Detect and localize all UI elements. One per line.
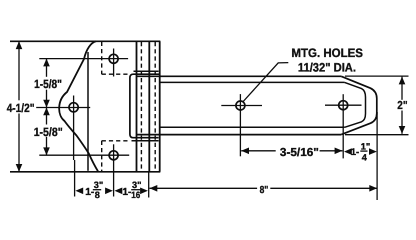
dimension 2 extension top <box>345 75 409 77</box>
svg-text:1-5/8": 1-5/8" <box>34 125 63 139</box>
dimension 1-5/8 middle arrow up <box>43 108 50 116</box>
extension line below strap tip <box>376 112 378 200</box>
svg-text:3": 3" <box>94 180 103 190</box>
strap pointed tip inner <box>345 82 366 127</box>
hinge pin hidden line right <box>154 42 156 171</box>
hole H2 middle of plate <box>69 103 78 112</box>
svg-text:4: 4 <box>362 152 368 162</box>
svg-text:1": 1" <box>361 141 370 151</box>
knuckle end line bottom <box>132 140 159 142</box>
hole H5 horizontal centerline <box>325 104 362 106</box>
barrel right edge <box>159 41 161 172</box>
dimension 1-3/8 arrows <box>75 188 83 195</box>
dimension 1-1/4 arrows <box>344 148 352 155</box>
dimension 2 extension bottom <box>345 134 409 136</box>
hole H2 horizontal centerline <box>36 107 90 109</box>
label 1-3/16 : fraction bar <box>131 189 140 191</box>
dimension 1-3/16 arrows <box>115 188 123 195</box>
dimension 1-5/8 top arrow <box>43 59 50 67</box>
dimension 3-5/16 line with gap for label <box>241 150 276 152</box>
dimension 1-5/8 bottom arrow <box>43 147 50 155</box>
svg-text:16: 16 <box>131 190 140 200</box>
strap top edge <box>137 75 341 77</box>
svg-text:3": 3" <box>132 180 141 190</box>
dimension 3-5/16 arrows <box>241 148 249 155</box>
strap wrap outline around barrel <box>130 74 160 138</box>
top extension line for 4-1/2 dim merged with plate top edge <box>10 40 160 42</box>
hole H4 vertical centerline extended to 3-5/16 dim <box>239 94 241 156</box>
svg-text:8": 8" <box>260 185 269 196</box>
hole H3 horizontal centerline merged with 1-5/8 extension <box>39 154 129 156</box>
hole H2 vertical centerline extended as extension for 1-3/8 <box>73 96 75 161</box>
svg-text:8: 8 <box>95 190 100 200</box>
strap bottom edge <box>137 134 341 136</box>
extension line under barrel for 8 and 1-3/16 dims <box>148 172 150 198</box>
barrel left edge <box>136 41 138 172</box>
hole H1 top of plate <box>109 54 118 63</box>
strap inner bottom line <box>160 126 345 128</box>
dimension 2 bottom arrow <box>399 126 406 134</box>
hidden tab bottom: left edge <box>101 141 103 172</box>
barrel middle edge <box>148 41 150 172</box>
hole H5 vertical centerline extended to dims <box>342 94 344 158</box>
hole H5 strap right <box>339 101 348 110</box>
hole H4 strap left <box>236 101 245 110</box>
hole H3 bottom of plate <box>109 151 118 160</box>
dimension 1-5/8 line with gaps for labels <box>46 59 48 77</box>
dimension 8 left arrow <box>150 185 158 192</box>
hidden tab bottom: top edge <box>102 140 130 142</box>
strap inner top line <box>160 81 345 83</box>
dimension 4-1/2 bottom arrow <box>16 164 23 172</box>
dimension 8 right arrow <box>369 185 377 192</box>
butt plate outline <box>59 41 98 171</box>
hidden tab top: left edge <box>101 42 103 74</box>
bottom extension line merged with plate and barrel bottom edge <box>10 171 160 173</box>
svg-text:MTG. HOLES: MTG. HOLES <box>291 46 363 60</box>
hole H1 horizontal centerline merged with 1-5/8 extension <box>39 58 128 60</box>
svg-text:1-: 1- <box>122 187 131 198</box>
hole H3 vertical centerline extended as extension for 1-3/8 and 1-3/16 <box>113 144 115 196</box>
hole H4 horizontal centerline <box>221 105 262 107</box>
knuckle end line top <box>134 70 159 72</box>
label 1-1/4 : fraction bar <box>360 150 367 152</box>
plate fold line <box>87 52 89 171</box>
hole H1 vertical centerline <box>113 49 115 77</box>
strap pointed tip outer <box>341 76 377 134</box>
svg-text:11/32" DIA.: 11/32" DIA. <box>298 61 356 75</box>
dimension 2 line with gap for label <box>401 77 403 100</box>
dimension 4-1/2 line with gap for label <box>18 41 20 100</box>
svg-text:2": 2" <box>397 99 407 112</box>
dimension 2 top arrow <box>399 77 406 85</box>
leader line from MTG HOLES note to hole H4 <box>243 63 288 102</box>
hinge pin hidden line left <box>140 42 142 171</box>
label 1-3/8 : fraction bar <box>93 189 101 191</box>
svg-text:4-1/2": 4-1/2" <box>7 101 35 115</box>
svg-text:1-5/8": 1-5/8" <box>34 77 62 91</box>
svg-text:1-: 1- <box>351 147 360 158</box>
hidden tab top: bottom edge <box>102 73 130 75</box>
dimension 8 line with gap for label <box>150 187 258 189</box>
dimension 4-1/2 top arrow <box>16 41 23 49</box>
dimension 1-5/8 middle arrow down <box>43 100 50 108</box>
svg-text:3-5/16": 3-5/16" <box>280 146 319 159</box>
